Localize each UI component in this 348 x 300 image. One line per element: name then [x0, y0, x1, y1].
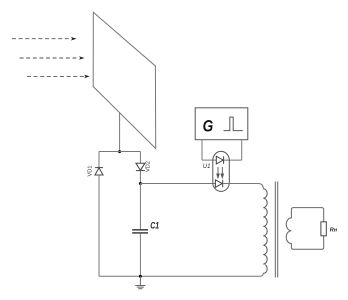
- wire G left lead: [201, 140, 203, 160]
- node junction mid: [139, 182, 142, 185]
- wire mid branch to node: [139, 171, 141, 184]
- LED of U1: [216, 156, 223, 164]
- svg-text:C1: C1: [150, 220, 159, 231]
- svg-text:Rн: Rн: [330, 227, 338, 233]
- svg-text:VD1: VD1: [88, 166, 94, 177]
- node junction bottom: [139, 275, 142, 278]
- capacitor C1: [132, 230, 148, 233]
- wire left branch upper: [98, 152, 100, 168]
- wire mid node to optocoupler: [140, 183, 215, 185]
- secondary winding and load loop: [286, 208, 324, 250]
- wire LED cathode: [224, 159, 242, 161]
- wire to LED anode: [202, 159, 216, 161]
- wire bottom horizontal: [99, 273, 263, 276]
- svg-text:U1: U1: [203, 164, 211, 170]
- transformer core: [274, 182, 276, 278]
- photodiode of U1: [215, 180, 222, 188]
- light ray arrow 1: [12, 37, 77, 41]
- optocoupler U1 ellipse: [213, 151, 230, 191]
- light ray arrow 2: [20, 56, 85, 60]
- wire mid branch upper: [139, 152, 141, 164]
- wire node to C1: [139, 184, 141, 230]
- diode VD1: [95, 168, 103, 175]
- wire G right lead: [241, 140, 243, 160]
- wire left branch lower: [98, 175, 100, 276]
- wire panel to node: [119, 113, 121, 152]
- node junction top: [118, 150, 121, 153]
- ground: [135, 276, 145, 288]
- resistor Rn: [321, 222, 326, 236]
- wire top horizontal: [99, 151, 140, 153]
- light arrows inside U1: [217, 167, 224, 178]
- wire C1 to bottom: [139, 233, 141, 276]
- generator G box: [195, 108, 248, 140]
- diode VD2: [136, 163, 145, 170]
- light ray arrow 3: [27, 75, 90, 79]
- transformer primary winding: [263, 189, 267, 274]
- svg-text:G: G: [203, 117, 214, 135]
- svg-text:VD2: VD2: [145, 161, 151, 172]
- pulse symbol: [224, 117, 243, 131]
- wire photodiode to transformer: [223, 184, 264, 189]
- solar panel PV: [93, 12, 156, 148]
